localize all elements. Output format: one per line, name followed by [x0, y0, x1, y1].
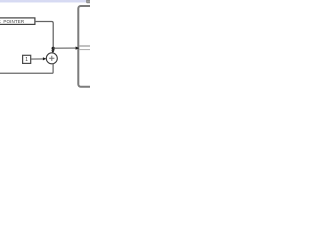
memory cell divider (upper line)	[79, 45, 91, 47]
wire: register output right then down to junction	[35, 21, 53, 48]
plus sign of adder	[49, 56, 54, 61]
memory box M1 (large box, right side, cut off)	[78, 6, 98, 87]
svg-text:STACK POINTER: STACK POINTER	[0, 19, 25, 24]
arrowhead into adder left	[43, 57, 47, 60]
junction dot at node A	[52, 47, 55, 50]
memory cell divider (lower line)	[79, 49, 91, 51]
header strip (top lavender band)	[0, 0, 90, 3]
wire: junction down into adder	[52, 48, 54, 51]
tab button highlight	[87, 0, 91, 3]
arrowhead into adder top	[51, 50, 54, 53]
stack pointer register box U1 (cut off at left)	[0, 18, 35, 25]
tab button (gray rounded blob, top right, cut off)	[86, 0, 92, 3]
arrowhead into memory box	[76, 47, 80, 50]
wire: adder output down then left (feedback)	[0, 64, 53, 74]
adder U2 (circle with plus)	[46, 53, 57, 64]
wire: constant box to adder	[31, 58, 44, 60]
wire: junction to memory box	[53, 47, 76, 49]
constant box U3 (value 1)	[23, 55, 31, 63]
svg-text:1: 1	[25, 57, 28, 63]
